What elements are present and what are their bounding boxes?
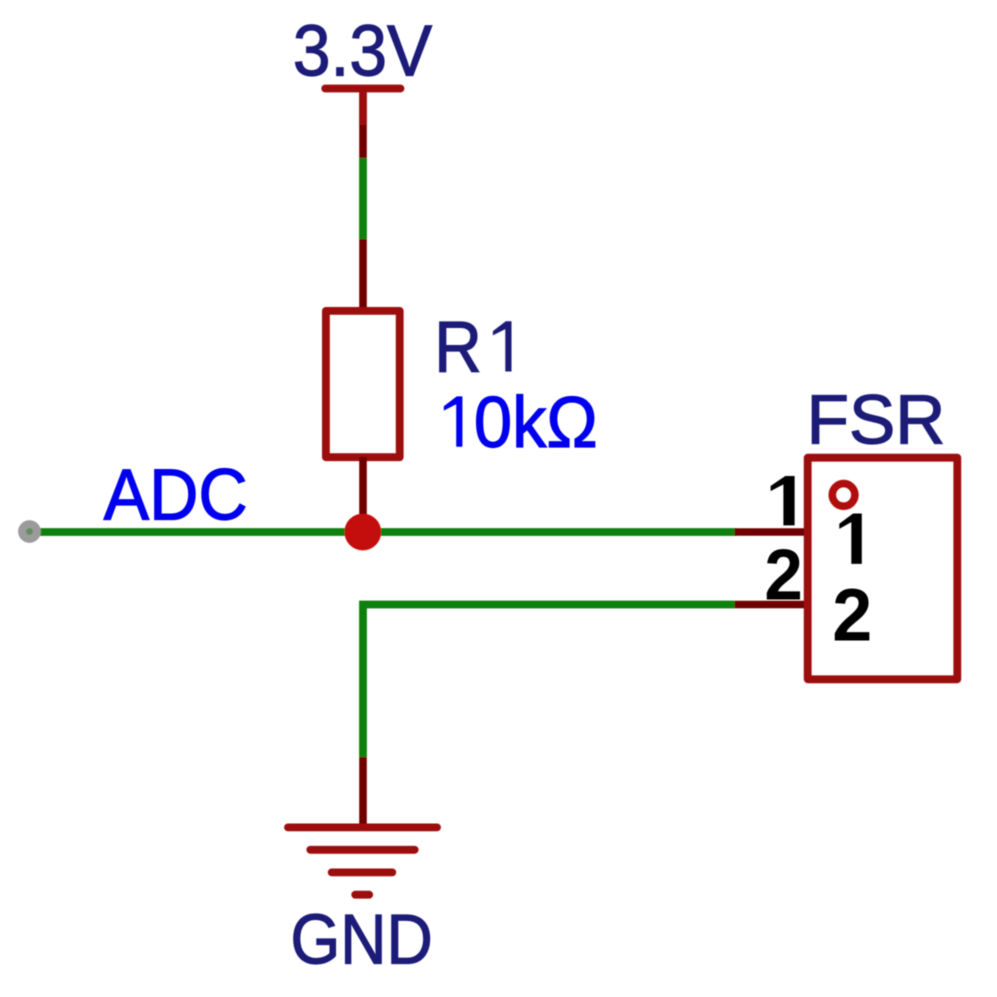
svg-text:FSR: FSR — [807, 381, 946, 459]
power supply symbol 3.3V bar — [325, 85, 400, 93]
resistor R1 body — [326, 311, 400, 457]
FSR pin 1 marker circle — [832, 484, 855, 507]
power supply pin — [359, 89, 367, 126]
value 10kΩ — [444, 396, 463, 446]
svg-text:R: R — [434, 308, 482, 388]
FSR pin 1 stub — [735, 528, 807, 536]
svg-text:2: 2 — [832, 574, 872, 657]
svg-text:ADC: ADC — [104, 455, 248, 535]
junction node at R1/ADC/FSR — [344, 514, 381, 551]
ground symbol bar 4 — [355, 891, 369, 899]
svg-text:0kΩ: 0kΩ — [474, 383, 598, 463]
ground symbol bar 1 — [288, 824, 437, 832]
wire ground stub (dark red) — [359, 757, 367, 825]
FSR pin 1 number outside — [771, 476, 795, 525]
FSR body — [808, 458, 958, 680]
wire loose end marker gray — [18, 520, 41, 543]
ground symbol bar 2 — [310, 846, 414, 854]
wire green pin2 to ground (L-shape) — [363, 605, 735, 758]
wire green vertical (3.3V net) — [359, 158, 367, 239]
ground symbol bar 3 — [332, 869, 393, 877]
svg-text:GND: GND — [291, 900, 433, 979]
FSR pin 1 number inside — [839, 514, 862, 564]
wire ADC horizontal green — [30, 528, 738, 536]
resistor R1 top pin — [359, 239, 367, 311]
svg-text:3.3V: 3.3V — [293, 11, 432, 91]
svg-text:2: 2 — [764, 536, 802, 616]
FSR pin 2 stub — [735, 601, 807, 609]
resistor R1 bottom pin — [359, 457, 367, 532]
wire supply stub (dark red) — [359, 125, 367, 158]
